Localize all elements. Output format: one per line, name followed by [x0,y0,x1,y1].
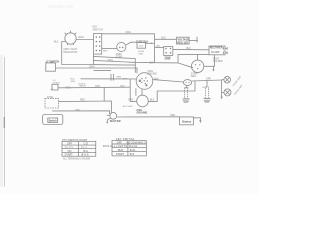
wire solenoid to rectifier [173,48,209,50]
rectifier output wires [225,47,227,49]
svg-text:RUN ALL LIGHTS: RUN ALL LIGHTS [103,145,127,148]
wire light switch to engine [56,68,138,73]
solenoid terminals [165,48,166,49]
headlamp H1 [224,76,231,83]
svg-text:B-A: B-A [84,149,89,153]
svg-text:B-L-A1: B-L-A1 [129,145,137,148]
svg-text:LINK: LINK [138,54,143,56]
wire pto right run up [148,81,195,102]
connector halves [110,74,112,81]
wire branch to spark plug 2 [206,80,208,87]
svg-text:VIO: VIO [156,46,160,48]
svg-text:REG 12V: REG 12V [178,41,189,44]
svg-text:BLK: BLK [121,86,126,88]
pto table frame [62,141,96,156]
svg-text:SEAT SW: SEAT SW [110,120,121,123]
svg-text:BLK: BLK [150,62,155,64]
svg-text:OFF: OFF [117,142,122,145]
headlamp H2 [224,89,231,96]
svg-text:Switch: Switch [49,120,58,123]
svg-text:B-S: B-S [130,152,135,156]
svg-text:RED: RED [79,36,84,39]
svg-text:SWITCH: SWITCH [93,27,103,31]
solenoid K1 [164,47,173,56]
wire to solenoid [155,47,164,49]
wire lamp right to key switch [76,39,94,41]
wire starter generator right to rectifier [204,55,215,67]
svg-text:START: START [116,152,125,156]
wire module top [107,114,110,116]
wire to voltage regulator [155,38,177,40]
svg-text:FUSE BLK: FUSE BLK [136,41,148,44]
svg-text:BLK: BLK [54,41,59,44]
svg-text:GRN: GRN [116,76,121,78]
wire engine left with connector [81,78,137,80]
svg-text:BRN: BRN [90,66,95,68]
svg-text:GRN: GRN [184,88,189,90]
svg-text:B-L-A: B-L-A [81,146,88,149]
svg-text:C-D: C-D [84,142,89,146]
ammeter terminals [119,47,120,48]
wire diode to engine drop [58,86,130,89]
svg-text:OFF: OFF [67,142,73,146]
svg-text:GROUND: GROUND [137,112,148,115]
ground squiggle [107,118,110,122]
svg-text:ENGINE: ENGINE [148,73,158,76]
wire battery ground [193,118,200,121]
svg-text:BLK: BLK [150,100,155,102]
svg-text:BLK-WHT: BLK-WHT [123,106,134,108]
svg-text:ORG: ORG [126,31,132,34]
svg-text:NO CONN-MAG G: NO CONN-MAG G [127,142,146,145]
interlock module box [43,115,63,125]
wire drop to fuse run [103,87,105,101]
svg-text:BLK: BLK [155,78,160,80]
svg-text:CUB CADET 1000: CUB CADET 1000 [48,5,73,9]
battery B1 [180,117,194,125]
svg-text:RUN: RUN [118,148,124,152]
diode block D1 label [52,84,58,90]
svg-text:WHT: WHT [71,81,77,83]
svg-text:20 A: 20 A [139,45,144,48]
main harness wire [94,60,179,63]
safety switch SW2 [110,112,117,119]
wire engine right to coil [153,80,184,82]
paper edge line [4,57,6,187]
rectifier box U3 [209,46,225,55]
starter generator G1 [191,60,203,72]
svg-text:DIODE: DIODE [53,82,60,84]
fuse holder F2 [45,99,59,108]
svg-text:LT SWITCH: LT SWITCH [46,61,60,64]
spark plug 2 [206,87,209,98]
wire engine drop to pto clutch [141,89,143,95]
wire stub below key switch [94,70,112,72]
wire coil bottom to plug 1 [185,85,187,88]
light switch box [46,63,56,71]
svg-text:GRN: GRN [206,78,211,80]
svg-text:FUSE: FUSE [47,97,54,99]
svg-text:RED: RED [166,58,171,60]
wire coil to headlamps [192,80,222,81]
wire y64.5 extension to engine drop [94,64,136,67]
wire branch y56.5 [94,56,136,72]
indicator lamp L1 [65,31,77,45]
wire key switch to ammeter [102,48,117,50]
voltage regulator box U2 [177,37,190,44]
svg-text:ETER: ETER [116,56,123,59]
paper left edge shade [0,55,3,187]
svg-text:Battery: Battery [182,120,191,124]
junction [150,43,152,45]
svg-text:B-A-S: B-A-S [82,153,89,157]
wire lamp left to light switch feed [62,42,94,65]
svg-text:RED: RED [76,109,81,111]
svg-text:RED: RED [103,51,108,53]
wire starter generator top [197,54,199,60]
svg-text:BLK: BLK [187,48,192,50]
svg-text:HOLDER: HOLDER [213,61,223,63]
svg-text:WHT: WHT [123,79,129,81]
key switch terminals [96,36,172,54]
svg-text:RED: RED [170,115,175,117]
wire key switch top to regulator drop [102,34,155,63]
diagonal into starter generator [178,63,193,68]
svg-text:RED: RED [66,87,71,89]
svg-text:ALL TERMINALS SHOWN: ALL TERMINALS SHOWN [63,157,91,160]
svg-text:START: START [65,153,74,157]
svg-text:TRACE: TRACE [79,85,87,88]
wire engine second drop [135,88,137,96]
svg-text:ORG: ORG [95,86,100,88]
wire fuse to interlock [59,101,112,113]
ignition coil T1 [183,80,191,86]
svg-text:BLK: BLK [162,37,167,40]
svg-text:INDICATOR: INDICATOR [63,50,77,54]
wire regulator output arrow [189,40,196,42]
engine magneto E1 [136,73,153,90]
arrow terminal [196,37,198,42]
fuse block F1 [137,42,146,48]
svg-text:GEN: GEN [191,75,196,78]
svg-text:ON: ON [68,149,72,153]
ground arrow at starter generator [212,66,214,69]
ammeter M1 [117,42,126,51]
svg-text:NO LTS: NO LTS [65,146,74,149]
svg-text:RECTIFIER: RECTIFIER [210,47,223,50]
wire rectifier bottom run [178,54,209,63]
wire safety switch to battery [117,116,180,118]
svg-text:30 AMP: 30 AMP [211,51,220,54]
svg-text:B-A1: B-A1 [130,148,136,152]
key switch S1 [94,34,102,55]
wire ammeter to fuse block [126,42,137,45]
svg-text:GRN: GRN [128,100,133,102]
wire engine left drop [130,79,136,101]
wire battery top run [52,111,110,114]
svg-text:RED: RED [80,99,85,101]
svg-text:ORG: ORG [108,59,114,62]
svg-text:BLK: BLK [203,87,208,89]
key table frame [112,141,146,156]
headlamp feed vertical with ground arrow [221,80,223,97]
wire fuse block to drop [146,42,155,44]
pto clutch P1 [137,95,149,107]
spark plug 1 [185,88,188,99]
